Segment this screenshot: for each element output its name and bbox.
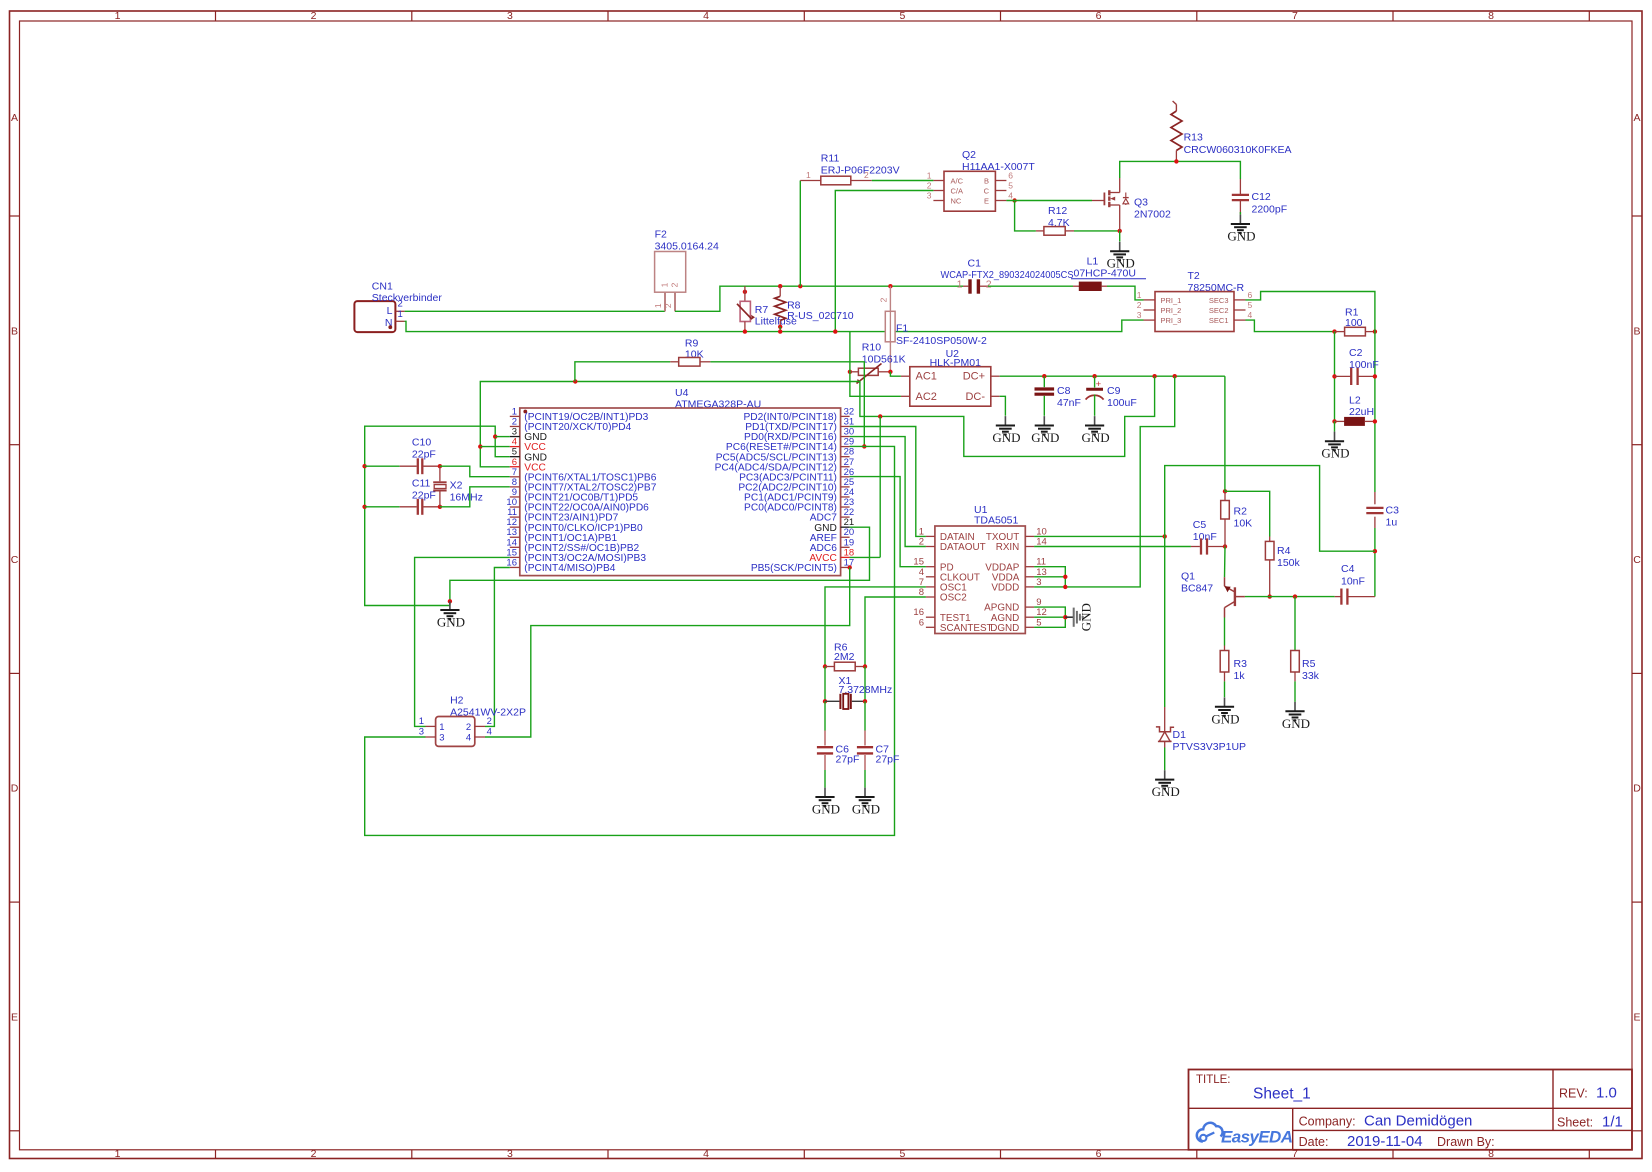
- wire R10.2 to U2.AC1: [890, 372, 901, 376]
- U4 pin 17 PB5(SCK/PCINT5): [751, 557, 854, 574]
- U1 pin 14 RXIN: [996, 537, 1047, 554]
- svg-text:2: 2: [927, 181, 932, 191]
- svg-text:GND: GND: [1152, 784, 1180, 799]
- wire OSC2 to X1 right: [865, 597, 926, 667]
- U4 pin 5 GND: [510, 447, 547, 464]
- resistor R5: [1291, 597, 1320, 682]
- U1 pin 2 DATAOUT: [919, 537, 986, 554]
- svg-text:22uH: 22uH: [1349, 406, 1374, 418]
- capacitor C11: [362, 478, 442, 515]
- svg-text:10K: 10K: [1234, 518, 1253, 530]
- capacitor C7: [857, 701, 900, 787]
- svg-text:Steckverbinder: Steckverbinder: [372, 292, 443, 304]
- svg-text:PRI_2: PRI_2: [1161, 306, 1182, 315]
- U1 pin 3 VDDD: [991, 577, 1041, 594]
- inductor L1: [1071, 256, 1146, 291]
- svg-text:L2: L2: [1349, 395, 1361, 407]
- svg-text:VDDD: VDDD: [991, 583, 1019, 594]
- wire MOSI to H2.1: [415, 557, 510, 726]
- transistor Q3 (2N7002 MOSFET): [1092, 178, 1171, 231]
- U4 pin 7 (PCINT6/XTAL1/TOSC1)PB6: [510, 467, 657, 484]
- svg-text:DC-: DC-: [965, 391, 985, 403]
- U4 pin 29 PC6(RESET#/PCINT14): [726, 437, 854, 454]
- svg-text:100uF: 100uF: [1107, 397, 1137, 409]
- resistor R4: [1265, 537, 1300, 599]
- svg-text:10nF: 10nF: [1193, 531, 1217, 543]
- svg-text:R4: R4: [1277, 545, 1291, 557]
- wire VCC net from DC+ to U4: [478, 376, 1155, 467]
- svg-text:22pF: 22pF: [412, 489, 436, 501]
- svg-text:4: 4: [703, 1148, 709, 1160]
- wire Q1 collector to R3: [1224, 618, 1226, 646]
- U4 pin 25 PC2(ADC2/PCINT10): [738, 477, 854, 494]
- svg-text:GND: GND: [1227, 229, 1255, 244]
- modem IC U1 (TDA5051): [935, 504, 1025, 634]
- svg-text:ERJ-P06F2203V: ERJ-P06F2203V: [821, 165, 900, 177]
- svg-text:1: 1: [653, 303, 663, 308]
- wire AVCC branch: [850, 416, 881, 557]
- wire R11.2 to Q2.1: [872, 180, 934, 182]
- wire R12.2 to Q3 source: [1074, 229, 1122, 233]
- U4 pin 11 (PCINT23/AIN1)PD7: [507, 507, 618, 524]
- ground below C8: [1043, 416, 1045, 425]
- U4 pin 20 AREF: [810, 527, 854, 544]
- ground below DC-: [1004, 416, 1006, 425]
- svg-text:5: 5: [1008, 181, 1013, 191]
- svg-text:DC+: DC+: [963, 371, 985, 383]
- svg-text:D: D: [1633, 783, 1641, 795]
- power module U2 (HLK-PM01): [901, 348, 1000, 406]
- U4 pin 32 PD2(INT0/PCINT18): [743, 406, 854, 423]
- svg-text:C/A: C/A: [951, 187, 964, 196]
- wire R2 top to R4 top: [1225, 491, 1270, 536]
- svg-text:1.0: 1.0: [1596, 1085, 1617, 1102]
- svg-text:CRCW060310K0FKEA: CRCW060310K0FKEA: [1184, 144, 1292, 156]
- wire R9.1 to VCC: [575, 362, 670, 382]
- svg-text:T2: T2: [1188, 270, 1200, 282]
- wire CN1.2 to F2.1 (L): [405, 310, 665, 312]
- wire U2.DC- to ground: [1000, 396, 1006, 416]
- svg-text:E: E: [984, 197, 989, 206]
- wire DC+ 5V rail: [1000, 374, 1225, 378]
- svg-text:Sheet:: Sheet:: [1557, 1116, 1593, 1130]
- wire C10 to XTAL1 pin7: [440, 466, 510, 477]
- svg-text:1: 1: [806, 170, 811, 180]
- svg-text:3405.0164.24: 3405.0164.24: [655, 241, 719, 253]
- svg-text:7: 7: [1292, 10, 1298, 22]
- ground below C9: [1094, 416, 1096, 425]
- U4 pin 31 PD1(TXD/PCINT17): [745, 416, 854, 433]
- svg-text:2: 2: [878, 297, 888, 302]
- svg-text:GND: GND: [852, 802, 880, 817]
- capacitor C4: [1335, 563, 1375, 605]
- svg-text:AC2: AC2: [916, 391, 937, 403]
- svg-text:R12: R12: [1048, 205, 1067, 217]
- U4 pin 10 (PCINT22/OC0A/AIN0)PD6: [506, 497, 649, 514]
- svg-text:SEC2: SEC2: [1209, 306, 1229, 315]
- svg-text:A: A: [11, 112, 18, 124]
- svg-text:2: 2: [487, 716, 492, 727]
- svg-text:150k: 150k: [1277, 557, 1301, 569]
- capacitor C9 (electrolytic): [1086, 376, 1137, 416]
- resistor R9: [670, 338, 710, 367]
- ground below Q3: [1107, 231, 1135, 271]
- wire T2.SEC1 to R1.1: [1246, 320, 1337, 334]
- svg-text:C5: C5: [1193, 519, 1207, 531]
- ground at U1 AGND (rotated): [1065, 603, 1093, 631]
- svg-text:2200pF: 2200pF: [1252, 204, 1288, 216]
- svg-text:4: 4: [466, 733, 471, 744]
- U1 pin 16 TEST1: [913, 607, 971, 624]
- svg-text:4: 4: [1008, 191, 1013, 201]
- fuse F1: [878, 284, 987, 372]
- EasyEDA logo: [1197, 1123, 1293, 1147]
- wire RXD to U1 DATAOUT: [850, 437, 926, 547]
- U1 pin 1 DATAIN: [919, 526, 975, 543]
- svg-text:H2: H2: [450, 695, 464, 707]
- svg-text:B: B: [1633, 325, 1640, 337]
- svg-text:33k: 33k: [1302, 670, 1320, 682]
- svg-text:C: C: [11, 554, 19, 566]
- ground symbol main GND junction: [437, 599, 465, 629]
- svg-text:10nF: 10nF: [1341, 576, 1365, 588]
- U4 pin 21 GND: [814, 517, 854, 534]
- svg-text:2: 2: [670, 282, 680, 287]
- wire left AC-coupling rail: [1334, 332, 1336, 422]
- optocoupler Q2: [927, 149, 1036, 211]
- svg-text:E: E: [11, 1011, 18, 1023]
- wire GND pins 3,5 of U4: [365, 426, 510, 605]
- svg-text:X2: X2: [450, 480, 463, 492]
- svg-text:C9: C9: [1107, 385, 1121, 397]
- svg-text:TITLE:: TITLE:: [1196, 1074, 1231, 1086]
- svg-text:5: 5: [899, 1148, 905, 1160]
- svg-text:GND: GND: [1282, 716, 1310, 731]
- resistor R2: [1221, 489, 1252, 546]
- svg-text:R-US_020710: R-US_020710: [787, 310, 854, 322]
- wire PC3 to U1 PD: [850, 477, 926, 567]
- wire RXIN to C5: [1034, 546, 1191, 548]
- svg-text:SF-2410SP050W-2: SF-2410SP050W-2: [896, 335, 987, 347]
- svg-text:D: D: [11, 783, 19, 795]
- U1 pin 5 DGND: [990, 617, 1041, 634]
- svg-text:1: 1: [419, 716, 424, 727]
- svg-text:DGND: DGND: [990, 623, 1019, 634]
- svg-text:OSC2: OSC2: [940, 593, 967, 604]
- header H2 (A2541WV-2X2P): [419, 695, 526, 747]
- title block: [1189, 1070, 1633, 1151]
- svg-text:C2: C2: [1349, 347, 1363, 359]
- svg-text:U4: U4: [675, 387, 689, 399]
- wire C11 to XTAL2 pin8: [440, 487, 510, 507]
- U1 pin 8 OSC2: [919, 587, 967, 604]
- svg-text:10D561K: 10D561K: [862, 354, 906, 366]
- svg-text:TDA5051: TDA5051: [974, 515, 1019, 527]
- svg-text:2019-11-04: 2019-11-04: [1347, 1133, 1423, 1150]
- wire R6 to X1 sides: [825, 667, 865, 702]
- U1 pin 4 CLKOUT: [919, 567, 980, 584]
- svg-text:Company:: Company:: [1299, 1115, 1356, 1129]
- svg-text:1: 1: [1137, 290, 1142, 300]
- svg-text:GND: GND: [1321, 446, 1349, 461]
- svg-text:SCANTEST: SCANTEST: [940, 623, 993, 634]
- transformer T2: [1137, 270, 1253, 332]
- fuse F2: [653, 229, 719, 312]
- svg-text:2M2: 2M2: [834, 651, 855, 663]
- svg-text:E: E: [1633, 1011, 1640, 1023]
- resistor R8: [775, 284, 854, 334]
- resistor R11: [800, 153, 899, 185]
- U4 pin 3 GND: [510, 427, 547, 444]
- svg-text:PTVS3V3P1UP: PTVS3V3P1UP: [1173, 741, 1247, 753]
- svg-text:1: 1: [439, 722, 444, 733]
- ground below C7: [864, 788, 866, 797]
- svg-text:A: A: [1633, 112, 1640, 124]
- wire MISO to H2.2: [485, 568, 510, 727]
- U4 pin 9 (PCINT21/OC0B/T1)PD5: [510, 487, 639, 504]
- svg-text:REV:: REV:: [1559, 1087, 1588, 1101]
- svg-text:L1: L1: [1087, 256, 1099, 268]
- svg-text:L: L: [387, 305, 393, 317]
- svg-text:Date:: Date:: [1299, 1135, 1329, 1149]
- svg-text:4: 4: [1248, 310, 1253, 320]
- svg-text:RXIN: RXIN: [996, 542, 1020, 553]
- svg-text:GND: GND: [992, 430, 1020, 445]
- svg-text:47nF: 47nF: [1057, 397, 1081, 409]
- ground below R3: [1211, 681, 1239, 726]
- varistor R10: [848, 342, 906, 384]
- svg-text:R2: R2: [1234, 506, 1248, 518]
- svg-text:6: 6: [1096, 10, 1102, 22]
- wire Q2.2 to N rail: [833, 191, 933, 334]
- ground below R5: [1282, 681, 1310, 730]
- svg-text:2: 2: [311, 10, 317, 22]
- svg-text:D1: D1: [1173, 729, 1187, 741]
- svg-text:Sheet_1: Sheet_1: [1253, 1086, 1311, 1103]
- wire DC+ down to R2: [1224, 376, 1226, 491]
- wire C3 to C4 rail: [1373, 528, 1377, 597]
- svg-text:6: 6: [919, 617, 924, 628]
- svg-text:AC1: AC1: [916, 371, 937, 383]
- svg-text:C3: C3: [1386, 505, 1400, 517]
- svg-text:CN1: CN1: [372, 281, 393, 293]
- svg-text:27pF: 27pF: [876, 754, 900, 766]
- svg-text:8: 8: [1488, 10, 1494, 22]
- svg-text:2: 2: [919, 537, 924, 548]
- varistor R7: [737, 286, 797, 334]
- wire U4 pin21 GND route: [450, 527, 870, 605]
- svg-text:B: B: [984, 177, 989, 186]
- svg-text:4: 4: [487, 727, 492, 738]
- wire L1 to T2.1: [1107, 286, 1144, 300]
- svg-text:Q3: Q3: [1134, 197, 1148, 209]
- svg-text:27pF: 27pF: [836, 754, 860, 766]
- svg-text:A/C: A/C: [951, 177, 964, 186]
- wire R11 branch from L rail: [798, 181, 802, 289]
- U1 pin 12 AGND: [991, 607, 1047, 624]
- svg-text:3: 3: [927, 191, 932, 201]
- capacitor C8: [1035, 376, 1081, 416]
- wire Q2.4 to Q3 gate and R12: [1006, 198, 1092, 231]
- svg-text:GND: GND: [812, 802, 840, 817]
- svg-text:GND: GND: [1082, 430, 1110, 445]
- wire U1 APGND/AGND/DGND tie: [1034, 607, 1067, 627]
- svg-text:07HCP-470U: 07HCP-470U: [1074, 268, 1136, 280]
- svg-text:16MHz: 16MHz: [450, 492, 483, 504]
- svg-text:C10: C10: [412, 437, 431, 449]
- wire CN1.1 to N rail: [405, 320, 1144, 332]
- wire T2.SEC3 to right rail top: [1246, 292, 1375, 329]
- svg-text:R5: R5: [1302, 658, 1316, 670]
- crystal X2: [433, 466, 483, 507]
- svg-text:(PCINT4/MISO)PB4: (PCINT4/MISO)PB4: [524, 563, 615, 574]
- U1 pin 10 TXOUT: [986, 526, 1047, 543]
- svg-text:2: 2: [864, 170, 869, 180]
- wire Q1 base node: [1245, 594, 1335, 598]
- U1 pin 15 PD: [913, 557, 953, 574]
- U4 pin 15 (PCINT3/OC2A/MOSI)PB3: [506, 547, 646, 564]
- U1 pin 13 VDDA: [992, 567, 1047, 584]
- wire right AC-coupling rail: [1374, 328, 1376, 492]
- U4 pin 12 (PCINT0/CLKO/ICP1)PB0: [506, 517, 643, 534]
- wire U1 VDDAP/VDDA/VDDD tie: [1034, 567, 1067, 589]
- resistor R12: [1036, 205, 1074, 235]
- svg-text:1: 1: [115, 1148, 121, 1160]
- svg-text:C: C: [1633, 554, 1641, 566]
- ground below L2: [1334, 421, 1336, 431]
- svg-text:R11: R11: [821, 153, 840, 165]
- U1 pin 7 OSC1: [919, 577, 968, 594]
- ground below C6: [824, 788, 826, 797]
- resistor R3: [1220, 646, 1247, 683]
- wire R9.2 to RESET: [710, 362, 866, 449]
- svg-text:GND: GND: [1079, 603, 1094, 631]
- U4 pin 18 AVCC: [809, 547, 854, 564]
- svg-text:R10: R10: [862, 342, 881, 354]
- svg-text:Drawn By:: Drawn By:: [1437, 1135, 1495, 1149]
- svg-text:C4: C4: [1341, 563, 1355, 575]
- svg-text:4: 4: [703, 10, 709, 22]
- svg-text:GND: GND: [1031, 430, 1059, 445]
- U4 pin 23 PC0(ADC0/PCINT8): [744, 497, 854, 514]
- connector CN1: [354, 281, 442, 333]
- U1 pin 6 SCANTEST: [919, 617, 993, 634]
- svg-text:C11: C11: [412, 478, 431, 490]
- svg-text:6: 6: [1248, 290, 1253, 300]
- resistor R6: [823, 642, 867, 671]
- capacitor C6: [817, 701, 860, 787]
- svg-text:3: 3: [507, 1148, 513, 1160]
- capacitor C2: [1332, 347, 1378, 385]
- svg-text:3: 3: [1137, 310, 1142, 320]
- U4 pin 22 ADC7: [810, 507, 854, 524]
- resistor R1: [1335, 307, 1378, 336]
- svg-text:SEC1: SEC1: [1209, 316, 1229, 325]
- U4 pin 28 PC5(ADC5/SCL/PCINT13): [716, 447, 854, 464]
- svg-text:1: 1: [659, 282, 669, 287]
- svg-text:PB5(SCK/PCINT5): PB5(SCK/PCINT5): [751, 563, 837, 574]
- svg-text:100nF: 100nF: [1349, 359, 1379, 371]
- U4 pin 4 VCC: [510, 437, 546, 454]
- capacitor C10: [362, 437, 442, 475]
- transistor Q1 (BC847): [1181, 547, 1245, 618]
- inductor L2: [1332, 395, 1377, 426]
- MCU U4 (ATMEGA328P-AU): [520, 387, 841, 576]
- svg-text:+: +: [1096, 379, 1102, 390]
- U4 pin 24 PC1(ADC1/PCINT9): [744, 487, 854, 504]
- svg-text:10K: 10K: [685, 348, 704, 360]
- svg-text:EasyEDA: EasyEDA: [1221, 1128, 1293, 1147]
- capacitor C5: [1191, 519, 1227, 555]
- wire F2.2 to L rail: [675, 286, 963, 311]
- svg-text:C8: C8: [1057, 385, 1071, 397]
- svg-text:SEC3: SEC3: [1209, 296, 1229, 305]
- ground below C12: [1227, 212, 1255, 244]
- wire U1 TXOUT net: [1034, 466, 1375, 707]
- ground below D1: [1152, 770, 1180, 799]
- capacitor C3: [1366, 492, 1399, 529]
- U4 pin 26 PC3(ADC3/PCINT11): [739, 467, 854, 484]
- U4 pin 14 (PCINT2/SS#/OC1B)PB2: [506, 537, 639, 554]
- svg-text:2: 2: [663, 303, 673, 308]
- U4 pin 13 (PCINT1/OC1A)PB1: [506, 527, 617, 544]
- U4 pin 30 PD0(RXD/PCINT16): [744, 427, 854, 444]
- svg-text:NC: NC: [951, 197, 962, 206]
- svg-text:R7: R7: [755, 304, 769, 316]
- wire C1.2 to L1: [988, 285, 1073, 287]
- svg-text:R13: R13: [1184, 132, 1203, 144]
- resistor R13: [1171, 101, 1292, 164]
- svg-text:PRI_3: PRI_3: [1161, 316, 1182, 325]
- U1 pin 11 VDDAP: [985, 557, 1046, 574]
- svg-text:5: 5: [899, 10, 905, 22]
- svg-text:C1: C1: [968, 257, 982, 269]
- U4 pin 19 ADC6: [810, 537, 854, 554]
- svg-text:2: 2: [986, 279, 992, 291]
- svg-text:1k: 1k: [1234, 670, 1246, 682]
- svg-text:C12: C12: [1252, 191, 1271, 203]
- svg-text:B: B: [11, 325, 18, 337]
- capacitor C1 (X2): [941, 257, 1074, 293]
- svg-text:1: 1: [957, 279, 963, 291]
- svg-text:2N7002: 2N7002: [1134, 209, 1171, 221]
- svg-text:1u: 1u: [1386, 517, 1398, 529]
- svg-text:Q2: Q2: [962, 149, 976, 161]
- wire SCK to H2.4: [485, 565, 852, 737]
- U4 pin 1 (PCINT19/OC2B/INT1)PD3: [510, 406, 649, 423]
- svg-text:GND: GND: [437, 615, 465, 630]
- svg-text:BC847: BC847: [1181, 583, 1213, 595]
- svg-text:1/1: 1/1: [1602, 1114, 1623, 1131]
- svg-text:C: C: [984, 187, 990, 196]
- svg-text:F1: F1: [896, 323, 908, 335]
- U4 pin 6 VCC: [510, 457, 546, 474]
- svg-text:3: 3: [439, 733, 444, 744]
- svg-text:3: 3: [419, 727, 424, 738]
- wire RESET to H2 bottom rail: [365, 446, 895, 835]
- U4 pin 8 (PCINT7/XTAL2/TOSC2)PB7: [510, 477, 657, 494]
- svg-text:2: 2: [311, 1148, 317, 1160]
- crystal X1: [823, 675, 892, 709]
- svg-text:GND: GND: [1211, 711, 1239, 726]
- svg-text:Q1: Q1: [1181, 571, 1195, 583]
- svg-text:22pF: 22pF: [412, 448, 436, 460]
- U4 pin 2 (PCINT20/XCK/T0)PD4: [510, 416, 632, 433]
- wire N rail to R10 and U2.AC2: [850, 332, 901, 397]
- wire VDD branch to U1: [1065, 376, 1174, 587]
- svg-text:2: 2: [1137, 300, 1142, 310]
- svg-text:DATAOUT: DATAOUT: [940, 542, 986, 553]
